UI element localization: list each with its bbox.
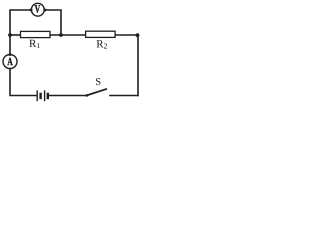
wire: left junction to R1 <box>10 34 21 36</box>
wire: voltmeter loop top-right horizontal <box>44 10 61 35</box>
switch S pivot <box>86 94 89 97</box>
battery cell 2 short plate <box>47 93 49 100</box>
wire: R2 to top-right corner, down right side <box>115 35 138 96</box>
node: left junction <box>8 33 12 37</box>
wire: voltmeter loop top-left horizontal <box>10 10 31 35</box>
battery cell 1 long plate <box>36 90 38 101</box>
node: ammeter top terminal <box>9 53 12 56</box>
svg-text:S: S <box>95 77 101 88</box>
svg-text:R1: R1 <box>29 38 40 50</box>
svg-text:A: A <box>7 56 12 68</box>
wire: battery to switch pivot <box>50 95 87 97</box>
battery cell 2 long plate <box>44 90 46 101</box>
node: voltmeter left terminal <box>30 9 33 12</box>
voltmeter V circle <box>31 3 44 16</box>
wire: R1 to mid junction to R2 <box>50 34 86 36</box>
node: voltmeter right terminal <box>43 9 46 12</box>
wire: ammeter to bottom-left corner and to battery <box>10 68 37 95</box>
ammeter circle A <box>3 55 17 69</box>
resistor R2 <box>86 31 116 37</box>
resistor R1 <box>21 31 51 37</box>
switch S blade <box>87 89 107 96</box>
node: mid junction <box>59 33 63 37</box>
wire: switch right segment <box>110 95 138 97</box>
svg-text:V: V <box>35 4 41 16</box>
wire: left vertical junction to ammeter <box>9 35 11 55</box>
battery cell 1 short plate <box>39 93 41 100</box>
node: top-right corner <box>136 33 140 37</box>
